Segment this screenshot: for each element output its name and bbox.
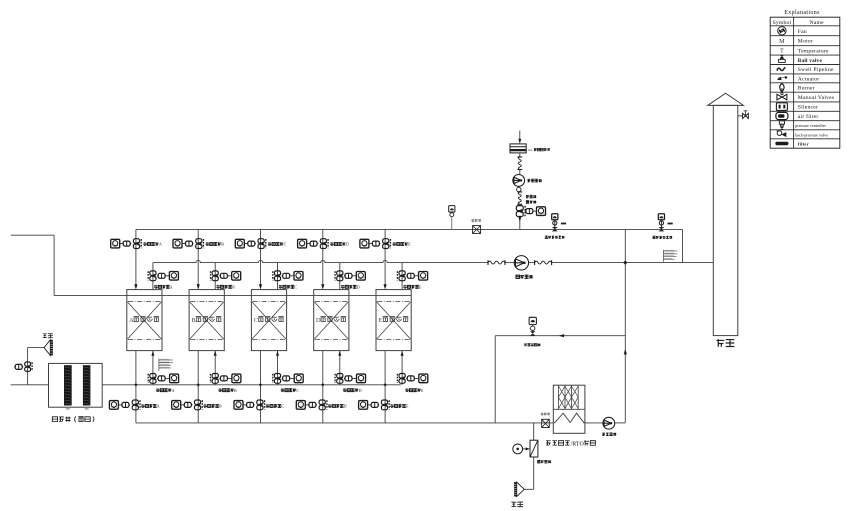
- label cooling-in B: [219, 389, 222, 392]
- svg-text:G4-: G4-: [528, 148, 533, 152]
- wire drop2 tank A top: [152, 263, 154, 290]
- wire burner fresh-air drop: [533, 423, 535, 440]
- instrument pressure sensor: [449, 206, 455, 212]
- svg-text:D: D: [346, 243, 349, 247]
- label catalytic fan: [602, 433, 605, 436]
- wire recirculation header y=229.4: [136, 228, 683, 230]
- label make-up fan: [528, 179, 531, 182]
- label RTO unit: [546, 441, 551, 445]
- air intake funnel bottom: [517, 482, 525, 496]
- svg-text:Name: Name: [810, 20, 824, 26]
- label fresh air top-left: [43, 334, 47, 338]
- valve group suction-out tank A: [150, 271, 156, 276]
- legend symbol air filter: [776, 112, 788, 119]
- wire cooling riser tank A bottom: [152, 351, 154, 385]
- wire fresh-air top branch: [28, 347, 44, 349]
- label cooling-in A: [156, 389, 159, 392]
- valve group recirculation-in tank D: [298, 239, 307, 248]
- svg-text:A: A: [157, 405, 160, 409]
- svg-text:C: C: [296, 389, 299, 393]
- valve group desorption-out tank D: [296, 401, 305, 410]
- silencer make-up: [533, 210, 536, 212]
- arrow up into tank A bottom: [151, 351, 154, 356]
- label suction-out D: [341, 285, 344, 288]
- valve group recirculation-in tank C: [235, 239, 244, 248]
- label tag A: [561, 223, 566, 225]
- wire cooling riser tank B bottom: [214, 351, 216, 385]
- valve group desorption-out tank E: [359, 401, 368, 410]
- svg-text:Temperature: Temperature: [798, 48, 829, 54]
- svg-text:A: A: [159, 243, 162, 247]
- svg-text:Manual Valves: Manual Valves: [798, 95, 835, 101]
- valve fresh-air: [25, 362, 31, 366]
- svg-text:filter: filter: [798, 142, 809, 147]
- legend symbol actuator: [778, 77, 787, 80]
- wire header drop at x=682.5: [682, 229, 684, 262]
- svg-text:back-pressure valve: back-pressure valve: [795, 132, 828, 137]
- junction drop-fresh header E: [383, 383, 386, 386]
- label filter box: [52, 417, 57, 422]
- wire heat recirculation line y=335.7: [495, 335, 625, 337]
- wire cooling riser tank D bottom: [339, 351, 341, 385]
- label desorption-out D: [328, 404, 331, 407]
- legend symbol manual valve: [777, 94, 787, 100]
- wire drop2 tank B top: [214, 263, 216, 290]
- wire cooling riser tank C bottom: [277, 351, 279, 385]
- label flame arrester 2: [541, 413, 544, 416]
- wire drop2 tank E top: [401, 263, 403, 290]
- label desorption-out A: [141, 404, 144, 407]
- label make-up valve: [526, 195, 529, 198]
- legend symbol ball valve: [779, 59, 786, 62]
- wire waste-gas inlet top-left: [11, 234, 54, 236]
- arrow up into tank D bottom: [338, 351, 341, 356]
- svg-text:pressure controller: pressure controller: [795, 123, 826, 128]
- filter box two-stage: [49, 363, 103, 407]
- junction drop-fresh header A: [134, 383, 137, 386]
- svg-text:B: B: [234, 389, 237, 393]
- wire RTO outlet to fan: [585, 422, 603, 424]
- valve group cooling-in tank E: [399, 374, 405, 379]
- label fresh air bottom: [511, 502, 516, 506]
- svg-text:D: D: [359, 389, 362, 393]
- svg-text:Actuator: Actuator: [798, 76, 820, 82]
- label recirculation-in E: [393, 242, 396, 245]
- wire drop1 into tank E top: [384, 229, 386, 284]
- label chimney: [717, 339, 725, 347]
- pressure controller A: [552, 214, 558, 220]
- svg-text:C: C: [284, 243, 287, 247]
- label suction-out A: [154, 285, 157, 288]
- label flame arrester 1: [472, 219, 475, 222]
- wire drop1 into tank B top: [197, 229, 199, 284]
- fan catalytic fan: [603, 417, 615, 429]
- label desorption-out C: [266, 404, 269, 407]
- svg-text:E: E: [378, 317, 382, 324]
- note stack sampling block: [663, 250, 665, 262]
- flex connector right of exhaust fan: [535, 261, 552, 264]
- label desorption-out E: [390, 404, 393, 407]
- chimney stack: [713, 105, 738, 335]
- legend symbol pressure controller: [779, 121, 784, 124]
- svg-text:Symbol: Symbol: [773, 20, 792, 26]
- arrow motor to damper: [526, 447, 530, 450]
- svg-text:A: A: [172, 389, 175, 393]
- valve group cooling-in tank C: [274, 374, 280, 379]
- valve group cooling-in tank A: [150, 374, 156, 379]
- wire funnel link: [524, 488, 533, 490]
- label electric valve: [526, 201, 529, 204]
- tank D activated-carbon vessel: [314, 290, 349, 351]
- flex connector swell pipeline: [518, 157, 521, 170]
- svg-text:Swell Pipeline: Swell Pipeline: [798, 67, 834, 73]
- damper motorised fresh-air damper: [530, 440, 538, 457]
- coupling: [526, 209, 533, 214]
- label tag B: [668, 223, 673, 225]
- label cooling-in D: [343, 389, 346, 392]
- flame arrester 2: [542, 419, 550, 427]
- valve group recirculation-in tank E: [360, 239, 369, 248]
- flex connector swell pipeline: [518, 192, 521, 204]
- air intake funnel top-left: [44, 340, 50, 356]
- wire drop tank E bottom to header: [384, 351, 386, 423]
- svg-text:Silencer: Silencer: [798, 105, 818, 111]
- valve group recirculation-in tank B: [173, 239, 182, 248]
- svg-text:Burner: Burner: [798, 86, 815, 92]
- arrow into tank A: [134, 284, 137, 289]
- label desorption-out B: [204, 404, 207, 407]
- wire drop tank B bottom to header: [197, 351, 199, 423]
- fan exhaust fan: [514, 256, 528, 270]
- motor damper actuator: [513, 444, 523, 454]
- svg-text:air filter: air filter: [798, 113, 819, 120]
- wire: [519, 153, 521, 157]
- arrow up into tank E bottom: [401, 351, 404, 356]
- tank A activated-carbon vessel: [127, 290, 162, 351]
- valve motorised make-up valve: [516, 206, 523, 211]
- svg-text:B: B: [219, 405, 222, 409]
- wire motor link: [523, 448, 528, 450]
- label cooling-in E: [405, 389, 408, 392]
- valve group suction-out tank B: [212, 271, 218, 276]
- legend symbol swell pipeline: [777, 67, 785, 70]
- legend symbol fan: [778, 27, 786, 35]
- wire drop tank D bottom to header: [322, 351, 324, 423]
- svg-text:C: C: [254, 317, 259, 324]
- wire fresh-air header y=384.8: [11, 384, 49, 386]
- tank C activated-carbon vessel: [251, 290, 286, 351]
- RTO unit: [553, 385, 585, 433]
- arrow into tank D: [321, 284, 324, 289]
- wire fan to riser: [615, 422, 626, 424]
- tank E activated-carbon vessel: [376, 290, 411, 351]
- svg-text:A: A: [129, 317, 134, 324]
- valve group recirculation-in tank A: [111, 239, 120, 248]
- arrow into header: [518, 217, 521, 222]
- svg-text:B: B: [232, 285, 235, 289]
- arrow riser flow up: [624, 349, 627, 355]
- filter media bar F6: [83, 365, 91, 405]
- arrow into tank E: [384, 284, 387, 289]
- arrow up into tank C bottom: [276, 351, 279, 356]
- wire: [519, 170, 521, 175]
- wire hot-gas riser x=625.3: [624, 229, 626, 423]
- svg-text:B: B: [221, 243, 224, 247]
- junction drop-fresh header B: [197, 383, 200, 386]
- svg-text:T: T: [780, 48, 784, 55]
- svg-text:B: B: [191, 317, 196, 324]
- label cooling-in C: [281, 389, 284, 392]
- wire drop2 tank C top: [277, 263, 279, 290]
- fan make-up air fan: [513, 175, 525, 187]
- label recirculation-in A: [143, 242, 146, 245]
- wire drop tank C bottom to header: [260, 351, 262, 423]
- labels media grade: [66, 408, 70, 409]
- wire drop1 into tank D top: [322, 229, 324, 284]
- arrow recirculation flow left: [559, 334, 565, 337]
- arrow into tank C: [259, 284, 262, 289]
- svg-text:D: D: [357, 285, 360, 289]
- valve group suction-out tank E: [399, 271, 405, 276]
- valve chimney sampling: [738, 115, 743, 117]
- label suction-out E: [403, 285, 406, 288]
- label fresh-air damper: [537, 460, 540, 463]
- valve group desorption-out tank A: [109, 401, 118, 410]
- valve group suction-out tank D: [337, 271, 343, 276]
- label pressure controller B: [653, 236, 656, 238]
- svg-text:Motor: Motor: [798, 39, 813, 45]
- valve group cooling-in tank B: [212, 374, 218, 379]
- arrow up into tank B bottom: [214, 351, 217, 356]
- wire drop tank A bottom to header: [135, 351, 137, 423]
- svg-text:D: D: [344, 405, 347, 409]
- svg-text:/RTO: /RTO: [571, 441, 585, 447]
- svg-text:C: C: [281, 405, 284, 409]
- arrow into G4 filter: [518, 139, 521, 144]
- motor of make-up fan: [517, 187, 521, 191]
- wire exhaust suction header y=262.6 with jump-overs: [153, 260, 488, 262]
- label recirculation-in B: [206, 242, 209, 245]
- label exhaust fan: [516, 275, 520, 278]
- legend table frame: [770, 17, 840, 148]
- RTO burner zigzag: [554, 413, 584, 423]
- junction riser-suction header: [623, 261, 627, 265]
- wire valve to header: [519, 216, 521, 229]
- wire drop2 tank D top: [339, 263, 341, 290]
- wire cooling riser tank E bottom: [401, 351, 403, 385]
- tank B activated-carbon vessel: [189, 290, 224, 351]
- coupling fresh-air: [15, 364, 22, 369]
- flex connector left of exhaust fan: [488, 261, 505, 264]
- svg-text:A: A: [170, 285, 173, 289]
- chimney cap: [708, 93, 744, 105]
- valve group desorption-out tank B: [172, 401, 181, 410]
- legend symbol filter: [775, 142, 788, 145]
- wire desorption bottom header y=422.9: [136, 422, 553, 424]
- junction drop-fresh header D: [321, 383, 324, 386]
- label recirculation valve: [524, 343, 527, 346]
- svg-text:C: C: [294, 285, 297, 289]
- label suction-out C: [279, 285, 282, 288]
- wire drop1 into tank C top: [260, 229, 262, 284]
- label suction-out B: [217, 285, 220, 288]
- wire drop1 into tank A top: [135, 229, 137, 284]
- svg-text:Ball valve: Ball valve: [798, 58, 823, 64]
- svg-text:Explanations: Explanations: [784, 10, 820, 16]
- svg-text:Fan: Fan: [798, 29, 807, 35]
- note pipe spec block tank A: [158, 359, 160, 371]
- wire recirculation downcomer x=495.2: [494, 336, 496, 423]
- wire make-up air inlet: [519, 131, 521, 141]
- arrow into tank B: [197, 284, 200, 289]
- label recirculation-in D: [330, 242, 333, 245]
- svg-text:M: M: [779, 38, 785, 45]
- legend symbol silencer: [776, 103, 787, 111]
- label recirculation-in C: [268, 242, 271, 245]
- legend symbol burner: [780, 83, 784, 91]
- flame arrester 1: [473, 226, 481, 234]
- legend symbol back-pressure valve: [777, 131, 782, 136]
- valve group desorption-out tank C: [234, 401, 243, 410]
- pressure controller B: [658, 214, 664, 220]
- label pressure controller A: [545, 236, 548, 238]
- valve group cooling-in tank D: [337, 374, 343, 379]
- filter media bar G3: [64, 365, 72, 405]
- junction drop-fresh header C: [259, 383, 262, 386]
- wire tank inlet manifold y=295.6: [54, 295, 411, 297]
- valve recirculation control valve: [529, 317, 536, 324]
- svg-text:D: D: [316, 317, 321, 324]
- filter G4 box: [510, 144, 526, 153]
- valve group suction-out tank C: [274, 271, 280, 276]
